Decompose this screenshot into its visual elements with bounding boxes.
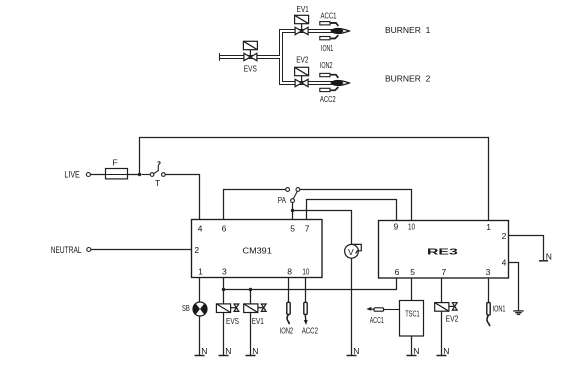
IC RE3 (379, 221, 509, 279)
wire junction to fan (293, 211, 352, 245)
svg-text:1: 1 (198, 267, 203, 277)
electrode ACC2 (burner 2) (320, 87, 339, 92)
valve EV2 (gas train) (295, 67, 309, 86)
electrode ION1 (burner 1) (320, 35, 339, 40)
svg-text:EV2: EV2 (296, 54, 308, 64)
svg-text:ACC1: ACC1 (321, 10, 337, 20)
svg-text:EVS: EVS (244, 63, 257, 73)
svg-text:PA: PA (278, 195, 286, 205)
wire junction up, top bus, down to RE3 pin 1 (140, 138, 489, 221)
wire CM391 pin 6 to PA switch (224, 190, 286, 220)
svg-text:N: N (443, 346, 449, 356)
svg-text:1: 1 (486, 222, 491, 232)
wire gas pipe black layer (220, 31, 335, 83)
svg-text:4: 4 (198, 223, 203, 233)
svg-text:N: N (225, 346, 231, 356)
box TSC1 (400, 301, 424, 337)
svg-text:EV1: EV1 (297, 4, 309, 14)
svg-text:RE3: RE3 (427, 247, 458, 257)
svg-text:3: 3 (222, 267, 227, 277)
wire RE3 pin 4 to earth (509, 263, 519, 311)
terminal N (fan) (347, 346, 360, 356)
terminal N (EV2) (437, 346, 450, 356)
wire switch to CM391 pin 4 (166, 175, 200, 220)
svg-text:NEUTRAL: NEUTRAL (51, 245, 82, 256)
IC CM391 (192, 220, 323, 278)
svg-text:5: 5 (290, 223, 295, 233)
svg-text:ACC2: ACC2 (302, 325, 318, 335)
svg-text:EVS: EVS (226, 316, 239, 326)
terminal N (TSC1) (407, 346, 420, 356)
svg-text:4: 4 (502, 257, 507, 267)
svg-text:ACC2: ACC2 (320, 94, 336, 104)
wire CM391 pin 5 to PA blade (292, 203, 294, 220)
wire PA switch to RE3 pin 10 (300, 190, 412, 221)
electrode ION2 (burner 2) (320, 73, 339, 77)
svg-text:10: 10 (302, 267, 309, 277)
svg-text:CM391: CM391 (243, 246, 273, 256)
valve EV1 (gas train) (295, 15, 309, 34)
terminal neutral (87, 248, 91, 252)
svg-text:T: T (155, 178, 160, 188)
svg-text:ION2: ION2 (320, 60, 333, 70)
electrode ACC1 (burner 1) (320, 22, 339, 26)
junction on pin 5 wire (291, 209, 294, 212)
junction after fuse (138, 173, 141, 176)
svg-text:EV2: EV2 (446, 314, 459, 324)
svg-text:ACC1: ACC1 (370, 315, 384, 325)
terminal N (SB) (195, 346, 208, 356)
terminal N (EV1) (246, 346, 259, 356)
wire CM391 pin 8 to ION2 (288, 278, 290, 303)
junction EV1 branch (249, 288, 252, 291)
pipe end cap (219, 53, 221, 61)
wire live to fuse (90, 174, 105, 176)
valve EVS (gas train) (243, 41, 257, 60)
svg-text:LIVE: LIVE (64, 169, 79, 180)
wire CM391 pin 1 to SB and N (199, 278, 201, 356)
junction pin 3 bus (222, 288, 225, 291)
electrode ACC1 (bottom) (366, 307, 399, 311)
terminal N (pin 2) (539, 252, 552, 262)
lamp SB (193, 302, 207, 316)
wire CM391 pin 10 to ACC2 (305, 278, 307, 303)
svg-text:N: N (353, 346, 359, 356)
wire pin 3 to EVS coil and N (223, 290, 225, 356)
switch T (142, 162, 166, 177)
svg-text:V: V (348, 247, 354, 257)
solenoid EV2 (435, 303, 457, 312)
svg-text:ION2: ION2 (280, 325, 294, 335)
fuse F (106, 169, 140, 179)
svg-text:F: F (113, 158, 118, 168)
svg-text:7: 7 (305, 223, 310, 233)
svg-text:TSC1: TSC1 (405, 309, 420, 319)
svg-text:6: 6 (395, 267, 400, 277)
earth ground (513, 311, 523, 315)
terminal live (86, 173, 90, 177)
svg-text:ION1: ION1 (493, 303, 506, 313)
svg-text:BURNER 2: BURNER 2 (385, 73, 431, 83)
svg-text:2: 2 (502, 231, 507, 241)
svg-text:3: 3 (486, 267, 491, 277)
svg-text:6: 6 (222, 223, 227, 233)
svg-text:N: N (546, 252, 552, 262)
wire gas pipe white core (219, 31, 335, 83)
wire neutral to CM391 pin 2 (91, 249, 192, 251)
svg-text:5: 5 (410, 267, 415, 277)
wire RE3 pin 3 to ION1 (488, 278, 490, 303)
fan V (345, 244, 362, 258)
wire RE3 pin 5 to TSC1 (411, 278, 413, 301)
wire RE3 pin 7 to EV2 coil and N (441, 278, 443, 356)
burner 2 flame (331, 81, 349, 86)
svg-text:N: N (252, 346, 258, 356)
burner 1 flame (331, 29, 349, 34)
svg-text:N: N (201, 346, 207, 356)
switch PA (286, 188, 300, 203)
svg-text:SB: SB (182, 303, 190, 313)
svg-text:7: 7 (442, 267, 447, 277)
svg-text:BURNER 1: BURNER 1 (385, 25, 431, 35)
solenoid EVS (216, 304, 238, 313)
solenoid EV1 (244, 304, 266, 313)
wire fan to neutral (351, 258, 353, 355)
wire CM391 pin 7 to RE3 pin 9 (307, 200, 397, 221)
svg-text:9: 9 (394, 222, 399, 232)
wire RE3 pin 2 to N terminal (509, 236, 544, 261)
svg-text:10: 10 (408, 222, 415, 232)
electrode ACC2 (bottom) (304, 302, 308, 325)
wire EV1 branch to coil and N (250, 290, 252, 356)
svg-text:N: N (413, 346, 419, 356)
terminal N (EVS) (219, 346, 232, 356)
svg-text:8: 8 (287, 267, 292, 277)
svg-text:2: 2 (194, 245, 199, 255)
electrode ION1 (bottom) (487, 303, 490, 327)
wire TSC1 to N (411, 336, 413, 356)
svg-text:ION1: ION1 (321, 43, 333, 53)
electrode ION2 (bottom) (287, 302, 290, 324)
svg-text:EV1: EV1 (252, 316, 264, 326)
wire bottom bus CM391 pin 3 to RE3 pin 6 (224, 278, 397, 290)
